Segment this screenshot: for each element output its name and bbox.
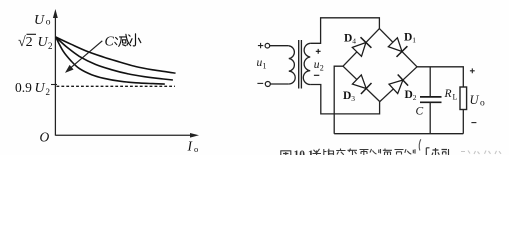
diode D4	[352, 37, 371, 56]
svg-text:C: C	[416, 106, 424, 118]
label 0.9 U2	[15, 80, 50, 97]
svg-text:D: D	[344, 33, 352, 45]
minus sign primary	[257, 82, 263, 84]
minus sign output	[471, 122, 476, 124]
svg-text:0.9: 0.9	[15, 80, 32, 95]
svg-text:O: O	[40, 130, 50, 145]
bridge edge bottom-right	[380, 67, 417, 102]
svg-text:10.1: 10.1	[294, 149, 314, 155]
diode D3	[352, 75, 371, 94]
svg-text:D: D	[404, 32, 412, 44]
svg-text:√2: √2	[18, 35, 33, 50]
y-axis	[54, 16, 56, 136]
terminal + (primary top)	[265, 43, 270, 48]
dashed level line	[57, 85, 176, 87]
svg-text:1: 1	[263, 62, 267, 71]
y-axis arrowhead	[53, 9, 58, 18]
curve top (largest C)	[56, 37, 176, 73]
label D4	[344, 33, 356, 46]
resistor RL box	[460, 87, 467, 110]
caption strip (clipped character tops)	[280, 151, 291, 155]
hanzi JIAN (reduce) hand-drawn	[115, 34, 131, 46]
plus sign primary	[258, 43, 263, 48]
wire secondary top to bridge top	[310, 18, 379, 44]
bridge edge left-top	[343, 29, 379, 67]
label u1	[257, 57, 267, 71]
svg-text:3: 3	[351, 94, 355, 103]
caption hanzi tops	[313, 149, 416, 156]
svg-text:U: U	[470, 93, 480, 107]
hanzi XIAO (small) hand-drawn	[130, 34, 141, 46]
core lines	[299, 40, 302, 89]
svg-text:2: 2	[48, 41, 53, 51]
svg-text:U: U	[35, 81, 46, 96]
curve middle	[56, 37, 173, 80]
label D1	[404, 32, 416, 45]
label sqrt2 U2	[18, 34, 53, 51]
RL branch lower wire	[462, 110, 464, 134]
svg-text:1: 1	[412, 36, 416, 45]
svg-text:L: L	[453, 93, 458, 102]
terminal - (primary bottom)	[265, 82, 270, 87]
svg-text:2: 2	[320, 64, 324, 73]
label U_O (y axis)	[34, 13, 51, 28]
curve bottom (smallest C)	[56, 37, 165, 84]
svg-text:2: 2	[413, 93, 417, 102]
svg-text:4: 4	[352, 37, 356, 46]
tick 0.9U2	[51, 84, 57, 86]
capacitor branch lower	[429, 102, 431, 133]
svg-text:C: C	[105, 35, 115, 50]
label I_O (x axis)	[187, 139, 199, 155]
svg-text:D: D	[405, 89, 413, 101]
bridge edge top-right	[379, 29, 417, 67]
label UO (output)	[470, 93, 486, 109]
svg-text:2: 2	[46, 87, 51, 97]
dc plus rail	[417, 67, 463, 87]
wire primary bottom	[270, 83, 289, 85]
svg-text:o: o	[480, 99, 485, 109]
caption right fragments	[426, 148, 448, 155]
plus sign output	[470, 68, 475, 73]
x-axis arrowhead	[190, 133, 199, 138]
secondary winding	[303, 43, 310, 84]
diode D1	[388, 38, 407, 57]
diode D2	[389, 75, 408, 94]
bridge edge left-bottom	[343, 66, 380, 101]
x-axis	[55, 134, 192, 136]
capacitor branch upper	[429, 67, 431, 97]
bottom rail	[334, 133, 463, 135]
svg-text:R: R	[444, 88, 452, 100]
svg-text:U: U	[38, 35, 49, 50]
wire secondary bottom to bridge bottom	[310, 85, 379, 114]
label +/- u2 (secondary)	[314, 49, 324, 75]
label D2	[405, 89, 417, 102]
svg-text:I: I	[187, 139, 194, 154]
hanzi TU (figure) top	[280, 151, 291, 155]
svg-text:o: o	[46, 18, 51, 28]
label RL	[444, 88, 458, 102]
label D3	[343, 90, 355, 103]
capacitor plates	[420, 97, 442, 102]
wire primary top	[270, 45, 289, 47]
stray pen stroke	[419, 139, 421, 150]
svg-text:D: D	[343, 90, 351, 102]
annotation arrow (C decreasing)	[70, 41, 103, 69]
svg-text:U: U	[34, 13, 45, 28]
wire dc minus: left vertex down to bottom rail	[334, 66, 343, 134]
svg-text:o: o	[194, 144, 198, 154]
primary winding	[289, 46, 295, 84]
